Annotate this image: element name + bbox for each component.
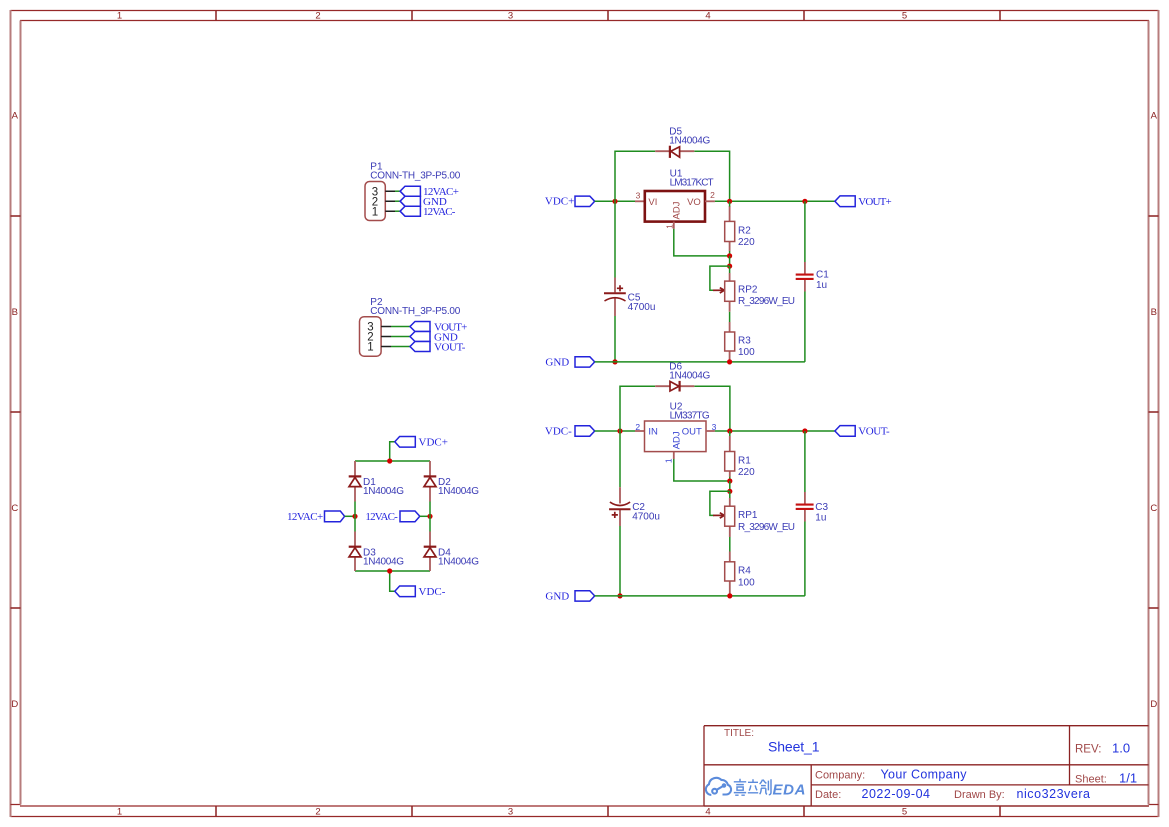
wire C3 branch [804, 431, 806, 596]
wire R1 junction to wiper junction [729, 481, 731, 491]
svg-text:GND: GND [545, 357, 569, 369]
svg-text:5: 5 [902, 11, 907, 22]
svg-text:1: 1 [664, 224, 674, 229]
net port flag GND lower [575, 591, 595, 601]
svg-text:4700u: 4700u [632, 512, 660, 523]
svg-text:1N4004G: 1N4004G [669, 370, 710, 381]
junction left leg mid [352, 514, 357, 519]
wire between RP1 and R4 [729, 537, 731, 552]
junction right leg mid [427, 514, 432, 519]
wire above RP1 [729, 491, 731, 498]
svg-text:220: 220 [738, 467, 755, 478]
svg-text:RP1: RP1 [738, 510, 758, 521]
svg-text:1u: 1u [815, 513, 826, 524]
wire VDC- rail to U2 [595, 430, 635, 432]
title block vertical divider REV/Sheet column [1069, 726, 1071, 785]
row tick marks right [1149, 216, 1159, 608]
wire P1 pin2 to GND flag [395, 200, 400, 202]
capacitor C1 plates [796, 275, 814, 279]
svg-text:1N4004G: 1N4004G [438, 556, 479, 567]
junction R4 GND [727, 593, 732, 598]
wire right leg upper-mid [429, 502, 431, 517]
resistor R2 pins [729, 206, 731, 251]
potentiometer RP2 wiper arrow [713, 288, 724, 293]
potentiometer RP1 wiper arrow [713, 513, 724, 518]
potentiometer RP2 pins [729, 273, 731, 312]
svg-text:4: 4 [705, 807, 710, 818]
junction ADJ R2 [727, 253, 732, 258]
svg-text:1: 1 [117, 807, 122, 818]
diode D1 symbol [349, 476, 362, 486]
diode D5 pins [655, 150, 694, 152]
svg-text:1N4004G: 1N4004G [363, 486, 404, 497]
junction C5 GND [612, 359, 617, 364]
wire 12VAC- flag to right leg [420, 515, 430, 517]
column tick marks bottom [216, 806, 1000, 817]
wire bridge top rail [355, 460, 430, 462]
resistor R3 pins [729, 322, 731, 362]
capacitor C5 plus sign [617, 285, 623, 291]
U2 pin 3 wire [706, 430, 715, 432]
svg-text:1: 1 [372, 206, 378, 218]
svg-text:TITLE:: TITLE: [724, 728, 754, 739]
U1 pin 2 wire [705, 200, 715, 202]
wire bridge bottom rail [355, 570, 430, 572]
wire GND rail upper [595, 361, 805, 363]
net port flag VDC- at bridge [395, 586, 416, 597]
svg-text:EDA: EDA [773, 782, 806, 799]
capacitor C5 pins [614, 278, 616, 317]
svg-text:2: 2 [635, 422, 640, 432]
svg-text:2: 2 [315, 11, 320, 22]
net port flag 12VAC+ at P1 [400, 186, 420, 196]
svg-text:IN: IN [648, 427, 658, 438]
resistor R2 body [725, 221, 735, 241]
svg-text:2: 2 [710, 190, 715, 200]
svg-text:1N4004G: 1N4004G [438, 486, 479, 497]
net port flag GND at P2 [410, 332, 430, 342]
svg-text:R_3296W_EU: R_3296W_EU [738, 522, 795, 533]
wire U2 output to VOUT- [715, 430, 835, 432]
svg-text:3: 3 [508, 807, 513, 818]
wire above R1 [729, 431, 731, 436]
wire C1 branch [804, 201, 806, 362]
capacitor C5 plates [604, 293, 626, 301]
U2 pin 2 wire [635, 430, 645, 432]
svg-text:220: 220 [738, 237, 755, 248]
svg-text:VO: VO [687, 197, 701, 208]
svg-text:VDC-: VDC- [419, 586, 446, 598]
net port flag VDC+ regulator input [575, 196, 595, 206]
capacitor C1 pins [804, 262, 806, 292]
net port flag VDC+ at bridge [395, 437, 416, 448]
svg-text:3: 3 [636, 191, 641, 201]
capacitor C3 pins [804, 492, 806, 522]
svg-text:1u: 1u [816, 280, 827, 291]
resistor R1 body [725, 452, 735, 472]
title block divider under TITLE row [704, 764, 1149, 766]
svg-text:4: 4 [705, 11, 710, 22]
svg-text:REV:: REV: [1075, 744, 1101, 756]
wire VDC- to C2 [619, 431, 621, 487]
svg-text:C1: C1 [816, 269, 829, 280]
wire D5 loop [615, 151, 730, 201]
title block vertical divider logo cell [810, 765, 812, 806]
resistor R4 body [725, 562, 735, 581]
connector P2 pin stubs [381, 327, 391, 347]
diode D6 pins [655, 385, 694, 387]
capacitor C2 pins [619, 487, 621, 526]
net port flag GND at P1 [400, 196, 420, 206]
svg-text:R_3296W_EU: R_3296W_EU [738, 296, 795, 307]
net port flag VOUT+ at P2 [410, 322, 430, 332]
diode D2 pins [429, 461, 431, 502]
wire below R1 [729, 477, 731, 481]
wire RP2 wiper loop [710, 266, 730, 290]
regulator U1 body [645, 191, 705, 222]
junction VO R2 top [727, 199, 732, 204]
svg-text:LM317KCT: LM317KCT [670, 178, 714, 189]
U1 pin 1 ADJ wire [673, 222, 675, 229]
diode D3 symbol [349, 547, 362, 557]
wire D6 loop [620, 386, 730, 431]
diode D3 pins [354, 532, 356, 572]
diode D1 pins [354, 461, 356, 502]
wire VDC- branch from bridge bottom [390, 571, 395, 591]
svg-text:Date:: Date: [815, 789, 841, 801]
junction RP1 wiper [727, 489, 732, 494]
U2 pin 1 ADJ wire [673, 452, 675, 459]
net port flag 12VAC- [400, 511, 420, 522]
junction RP2 wiper [727, 264, 732, 269]
wire P2 pin3 to VOUT+ flag [391, 326, 410, 328]
svg-text:GND: GND [545, 591, 569, 603]
wire right leg lower-mid [429, 516, 431, 531]
svg-text:CONN-TH_3P-P5.00: CONN-TH_3P-P5.00 [370, 306, 460, 317]
potentiometer RP1 pins [729, 498, 731, 537]
junction OUT R1 top [727, 428, 732, 433]
svg-text:R2: R2 [738, 226, 751, 237]
wire C2 to GND rail [619, 526, 621, 596]
junction R3 GND [727, 359, 732, 364]
column tick marks top [216, 11, 1000, 21]
net port flag 12VAC+ [325, 511, 345, 522]
capacitor C3 plates [796, 505, 814, 509]
svg-text:12VAC+: 12VAC+ [287, 511, 323, 523]
svg-text:3: 3 [508, 11, 513, 22]
junction VOUT+ C1 top [802, 199, 807, 204]
wire left leg upper-mid [354, 502, 356, 517]
svg-text:C: C [1150, 503, 1157, 514]
svg-text:100: 100 [738, 577, 755, 588]
svg-text:Sheet_1: Sheet_1 [768, 739, 820, 755]
wire above R2 [729, 201, 731, 206]
net port flag VOUT- at P2 [410, 342, 430, 352]
svg-text:12VAC-: 12VAC- [423, 206, 456, 218]
svg-text:VOUT+: VOUT+ [858, 196, 891, 208]
wire P2 pin1 to VOUT- flag [391, 346, 410, 348]
svg-text:1: 1 [367, 342, 373, 354]
svg-text:B: B [1151, 307, 1157, 318]
wire above RP2 [729, 266, 731, 273]
diode D5 symbol [670, 146, 680, 158]
wire VDC+ branch from bridge top [390, 442, 395, 461]
junction C2 GND [617, 593, 622, 598]
resistor R3 body [725, 332, 735, 351]
wire P1 pin3 to 12VAC+ flag [395, 190, 400, 192]
svg-text:1.0: 1.0 [1112, 741, 1130, 756]
junction VOUT- C3 top [802, 428, 807, 433]
resistor R1 pins [729, 436, 731, 477]
svg-text:R1: R1 [738, 456, 751, 467]
svg-text:ADJ: ADJ [672, 201, 683, 219]
wire C5 to GND rail [614, 316, 616, 362]
diode D6 symbol [670, 381, 680, 392]
svg-text:4700u: 4700u [628, 302, 656, 313]
wire ADJ to R1 bottom junction [674, 459, 730, 481]
net port flag VDC- regulator input [575, 426, 595, 436]
svg-text:VDC+: VDC+ [545, 196, 574, 208]
resistor R4 pins [729, 552, 731, 596]
net port flag VOUT+ [835, 196, 855, 207]
svg-text:nico323vera: nico323vera [1017, 787, 1091, 801]
svg-text:D: D [1150, 699, 1157, 710]
potentiometer RP2 body [725, 281, 735, 301]
svg-text:A: A [1151, 111, 1158, 122]
svg-text:A: A [12, 111, 19, 122]
svg-text:VOUT-: VOUT- [858, 426, 890, 438]
connector P2 body [360, 317, 382, 357]
svg-text:C3: C3 [815, 502, 828, 513]
wire P2 pin2 to GND flag [391, 336, 410, 338]
wire GND rail lower [595, 595, 805, 597]
svg-text:VOUT-: VOUT- [434, 341, 466, 353]
wire between RP2 and R3 [729, 312, 731, 322]
title block divider under Company row [811, 784, 1148, 786]
logo JLCEDA cloud icon [706, 778, 731, 795]
svg-text:2022-09-04: 2022-09-04 [862, 787, 931, 801]
capacitor C2 plus sign [612, 512, 618, 518]
capacitor C2 plates [609, 502, 630, 509]
title block outline [704, 726, 1149, 806]
svg-text:1N4004G: 1N4004G [363, 556, 404, 567]
potentiometer RP1 body [725, 506, 735, 526]
svg-text:1: 1 [117, 11, 122, 22]
svg-text:CONN-TH_3P-P5.00: CONN-TH_3P-P5.00 [370, 171, 460, 182]
svg-text:B: B [12, 307, 18, 318]
wire 12VAC+ flag to left leg [345, 515, 355, 517]
wire VDC+ rail to U1 [595, 200, 635, 202]
row tick marks left [11, 216, 21, 608]
svg-text:Sheet:: Sheet: [1075, 774, 1107, 786]
svg-text:1N4004G: 1N4004G [669, 136, 710, 147]
junction ADJ R1 [727, 478, 732, 483]
svg-text:1: 1 [664, 458, 674, 463]
net port flag 12VAC- at P1 [400, 206, 420, 216]
svg-text:C: C [11, 503, 18, 514]
svg-text:Your Company: Your Company [881, 768, 968, 782]
wire R2 junction to wiper junction [729, 256, 731, 266]
svg-text:12VAC-: 12VAC- [365, 511, 398, 523]
connector P1 body [365, 182, 385, 221]
svg-text:D: D [11, 699, 18, 710]
junction bridge top [387, 458, 392, 463]
net port flag VOUT- [835, 426, 855, 437]
U1 pin 3 wire [635, 200, 645, 202]
net port flag GND upper [575, 357, 595, 367]
svg-text:ADJ: ADJ [672, 431, 683, 449]
junction VDC- C2 top [617, 428, 622, 433]
svg-text:5: 5 [902, 807, 907, 818]
wire P1 pin1 to 12VAC- flag [395, 210, 400, 212]
wire left leg lower-mid [354, 516, 356, 531]
regulator U2 body [645, 421, 707, 452]
svg-text:RP2: RP2 [738, 285, 758, 296]
wire VDC+ to C5 [614, 201, 616, 277]
svg-text:LM337TG: LM337TG [670, 410, 710, 421]
wire below R2 [729, 251, 731, 256]
svg-text:OUT: OUT [682, 427, 702, 438]
svg-text:Company:: Company: [815, 770, 865, 782]
junction bridge bottom [387, 568, 392, 573]
svg-text:2: 2 [315, 807, 320, 818]
svg-text:VDC-: VDC- [545, 425, 572, 437]
wire RP1 wiper loop [710, 491, 730, 515]
diode D4 symbol [424, 547, 437, 557]
connector P1 pin stubs [385, 191, 395, 211]
logo text jia li chuang glyphs [734, 779, 771, 795]
svg-text:R4: R4 [738, 566, 751, 577]
diode D4 pins [429, 532, 431, 572]
svg-text:100: 100 [738, 347, 755, 358]
svg-text:Drawn By:: Drawn By: [954, 789, 1005, 801]
svg-text:1/1: 1/1 [1119, 771, 1137, 786]
diode D2 symbol [424, 476, 437, 486]
svg-text:VI: VI [648, 197, 657, 208]
wire ADJ to R2 bottom junction [674, 229, 730, 256]
junction VDC+ C5 top [612, 199, 617, 204]
wire U1 output to VOUT+ [715, 200, 835, 202]
svg-text:R3: R3 [738, 336, 751, 347]
svg-text:VDC+: VDC+ [419, 436, 448, 448]
